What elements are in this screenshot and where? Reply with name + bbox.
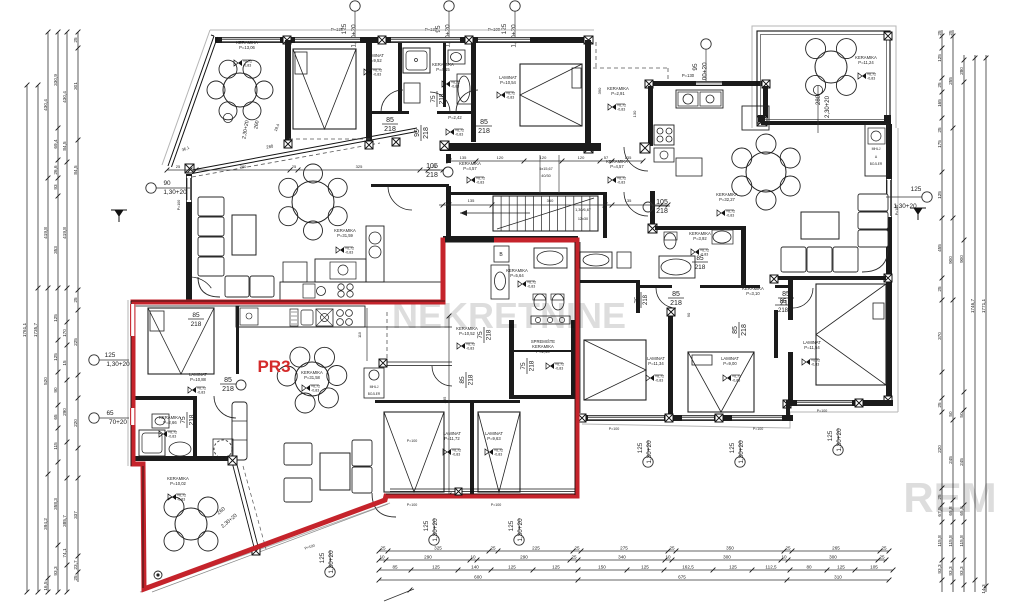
svg-text:1,30+20: 1,30+20 (106, 361, 130, 368)
svg-text:220: 220 (937, 445, 942, 453)
svg-text:75: 75 (520, 362, 527, 370)
wall pier (783, 400, 791, 408)
svg-text:218: 218 (191, 321, 202, 328)
svg-text:85: 85 (480, 119, 488, 126)
svg-text:-0,83: -0,83 (452, 452, 460, 456)
wall pier (855, 399, 863, 407)
svg-text:353: 353 (53, 246, 58, 254)
svg-text:419,8: 419,8 (62, 227, 67, 239)
svg-text:75: 75 (477, 331, 484, 339)
svg-text:115: 115 (53, 442, 58, 450)
svg-text:16,5: 16,5 (43, 581, 48, 591)
PR3 living furniture (284, 443, 312, 465)
bathroom east wall (471, 43, 476, 142)
door label 85 center (459, 372, 475, 388)
svg-text:P=10,02: P=10,02 (170, 481, 186, 486)
svg-text:P=100: P=100 (895, 205, 899, 216)
south wall of right apartment (786, 400, 893, 406)
svg-text:85: 85 (732, 326, 739, 334)
svg-text:170: 170 (62, 329, 67, 337)
svg-text:218: 218 (741, 324, 748, 336)
svg-text:130: 130 (632, 110, 637, 117)
svg-text:218: 218 (643, 294, 649, 305)
svg-text:-0,83: -0,83 (527, 284, 535, 288)
svg-text:125: 125 (827, 430, 834, 441)
svg-text:900: 900 (948, 256, 953, 264)
svg-text:165: 165 (937, 99, 942, 107)
svg-text:1761,1: 1761,1 (22, 322, 27, 337)
washbasin (448, 50, 465, 64)
kitchen west wall (648, 86, 653, 146)
svg-text:370: 370 (937, 332, 942, 340)
svg-text:P=100: P=100 (177, 200, 181, 211)
svg-text:25: 25 (937, 82, 942, 88)
svg-text:2,30+20: 2,30+20 (825, 95, 831, 118)
svg-text:1746,7: 1746,7 (970, 298, 975, 313)
svg-text:1,30+20: 1,30+20 (351, 24, 358, 48)
svg-text:P=100: P=100 (407, 439, 418, 443)
PR3 wardrobe (232, 402, 247, 460)
svg-text:90: 90 (686, 312, 691, 317)
center apartment north wall (443, 236, 578, 240)
wall pier (762, 80, 770, 88)
svg-text:125: 125 (105, 352, 116, 359)
svg-text:25: 25 (937, 30, 942, 36)
bedroom divider wall (788, 280, 793, 320)
svg-text:MHLJ: MHLJ (872, 147, 881, 151)
svg-text:65: 65 (106, 410, 114, 417)
svg-text:-0,83: -0,83 (466, 346, 474, 350)
svg-text:P=10,52: P=10,52 (459, 331, 475, 336)
svg-text:125: 125 (637, 442, 644, 453)
svg-text:105: 105 (426, 163, 438, 170)
svg-text:BOJLER: BOJLER (870, 162, 883, 166)
wall pier (757, 116, 767, 126)
storage and bath walls (509, 320, 514, 398)
svg-text:P=3,10: P=3,10 (746, 291, 760, 296)
kitchen counters (280, 282, 443, 300)
svg-text:218: 218 (656, 208, 668, 215)
svg-text:218: 218 (529, 360, 536, 371)
svg-text:112,5: 112,5 (765, 564, 777, 569)
wall pier (578, 414, 586, 422)
svg-text:12x30: 12x30 (578, 217, 588, 221)
wall pier (770, 275, 778, 283)
svg-text:10: 10 (781, 554, 787, 559)
svg-text:520: 520 (43, 377, 48, 385)
door label hall mid (635, 292, 649, 308)
svg-text:P=11,34: P=11,34 (648, 361, 664, 366)
svg-text:280: 280 (240, 164, 247, 169)
door PR3 bath (180, 412, 196, 428)
center bathroom fixtures (491, 265, 509, 299)
svg-text:65: 65 (53, 414, 58, 420)
svg-text:P=2,66: P=2,66 (163, 420, 177, 425)
svg-text:25: 25 (948, 30, 953, 36)
svg-text:PR3: PR3 (257, 357, 290, 376)
bathroom right fixtures (659, 256, 695, 278)
svg-text:15: 15 (62, 360, 67, 366)
wall pier (283, 36, 291, 44)
svg-text:125: 125 (641, 564, 649, 569)
svg-text:300: 300 (829, 554, 837, 559)
svg-text:90: 90 (53, 387, 58, 393)
svg-text:P=31,59: P=31,59 (337, 233, 353, 238)
wall pier (365, 141, 373, 149)
svg-text:135: 135 (460, 155, 467, 160)
svg-text:74,1: 74,1 (62, 548, 67, 558)
svg-text:150: 150 (598, 564, 606, 569)
benchmark symbol left (111, 210, 127, 222)
door arc bedroom2 (456, 90, 478, 112)
L-sofa (198, 197, 224, 216)
svg-text:105: 105 (656, 199, 668, 206)
svg-text:255: 255 (948, 77, 953, 85)
svg-text:265: 265 (832, 545, 840, 550)
svg-text:50: 50 (959, 412, 964, 418)
hall north wall (369, 111, 409, 114)
svg-text:218: 218 (423, 127, 430, 139)
svg-text:900: 900 (959, 255, 964, 263)
svg-text:325: 325 (356, 164, 363, 169)
svg-text:135: 135 (468, 198, 475, 203)
svg-text:P=4,15: P=4,15 (436, 67, 450, 72)
PR3 boiler closet wall (387, 361, 452, 363)
svg-text:105: 105 (870, 564, 878, 569)
svg-text:-0,83: -0,83 (373, 72, 381, 76)
wall pier (645, 80, 653, 88)
svg-text:330,9: 330,9 (53, 74, 58, 86)
svg-text:P=3,92: P=3,92 (693, 236, 707, 241)
svg-text:1,30+20: 1,30+20 (836, 428, 843, 452)
svg-text:-0,83: -0,83 (617, 180, 625, 184)
svg-text:435: 435 (442, 396, 447, 403)
wall pier (665, 414, 673, 422)
svg-text:P=100: P=100 (817, 409, 828, 413)
svg-text:P=31,58: P=31,58 (304, 375, 320, 380)
svg-text:P=4,57: P=4,57 (463, 166, 477, 171)
grey offset outline of building (128, 26, 898, 592)
svg-text:P=11,72: P=11,72 (444, 436, 460, 441)
svg-text:218: 218 (486, 329, 493, 340)
svg-text:75: 75 (180, 416, 187, 424)
svg-text:84,5: 84,5 (62, 141, 67, 151)
benchmark symbol right (910, 208, 926, 220)
stair hall guides (539, 155, 541, 193)
PR3 terrace table (175, 508, 207, 540)
svg-text:-0,83: -0,83 (168, 434, 176, 438)
svg-text:1,30+20: 1,30+20 (517, 518, 524, 542)
wall pier (465, 36, 473, 44)
svg-text:-0,83: -0,83 (494, 452, 502, 456)
interior dimension row (449, 160, 643, 162)
svg-text:P=100: P=100 (491, 503, 502, 507)
svg-text:125: 125 (423, 520, 430, 531)
door arc storage (520, 358, 536, 374)
svg-text:REM: REM (903, 474, 996, 521)
svg-text:455: 455 (937, 244, 942, 252)
coffee table (232, 215, 256, 255)
svg-text:25: 25 (574, 545, 580, 550)
svg-text:-0,83: -0,83 (726, 213, 734, 217)
PR3 bed (148, 308, 214, 374)
coffee table right (801, 212, 839, 239)
interior dimension row living (167, 169, 443, 171)
right dimension chains (937, 30, 989, 594)
svg-text:245: 245 (948, 456, 953, 464)
svg-text:-0,83: -0,83 (451, 84, 459, 88)
svg-text:25: 25 (292, 164, 297, 169)
svg-text:85: 85 (459, 376, 466, 384)
svg-text:95: 95 (692, 63, 699, 71)
door arc right2 (793, 288, 813, 308)
MHLJ closet (865, 124, 888, 176)
svg-text:85: 85 (386, 117, 394, 124)
terrace dining table NE (815, 51, 847, 83)
svg-text:1771,1: 1771,1 (981, 298, 986, 313)
svg-text:301: 301 (73, 82, 78, 90)
bed middle-1 (584, 340, 646, 400)
svg-text:-0,83: -0,83 (732, 378, 740, 382)
svg-text:125: 125 (552, 564, 560, 569)
top-right terrace walls (757, 31, 890, 123)
svg-text:70+20: 70+20 (109, 419, 127, 426)
svg-text:5x15,67: 5x15,67 (539, 167, 553, 171)
svg-text:115,8: 115,8 (959, 535, 964, 547)
wall pier (392, 138, 400, 146)
door arc right-apt (656, 288, 676, 308)
svg-text:1,30+20: 1,30+20 (511, 24, 518, 48)
svg-text:25: 25 (73, 37, 78, 43)
svg-text:350: 350 (726, 545, 734, 550)
svg-text:-0,83: -0,83 (555, 366, 563, 370)
door arc hall-kitchen (624, 147, 648, 171)
door knob circle (236, 380, 246, 390)
bottom window markers (304, 409, 843, 577)
wall pier at slant base (185, 164, 194, 173)
PR3 kitchen counter (236, 306, 365, 327)
wall pier (640, 143, 650, 153)
svg-text:P=2,40: P=2,40 (536, 349, 550, 354)
svg-text:-0,83: -0,83 (197, 390, 205, 394)
svg-text:-0,83: -0,83 (345, 250, 353, 254)
svg-text:1,30+20: 1,30+20 (646, 440, 653, 464)
svg-text:385,7: 385,7 (62, 515, 67, 527)
terrace drain (154, 571, 162, 579)
svg-text:90: 90 (163, 180, 171, 187)
corridor south wall (640, 285, 672, 288)
svg-text:-0,83: -0,83 (311, 388, 319, 392)
svg-text:110: 110 (358, 332, 362, 338)
svg-text:218: 218 (778, 308, 789, 314)
door arc bedroom1 (381, 90, 403, 112)
svg-text:85: 85 (224, 377, 232, 384)
svg-text:175: 175 (937, 140, 942, 148)
door label kitchen56 (477, 327, 493, 343)
wall pier (715, 414, 723, 422)
west wall of upper apartment (186, 174, 192, 303)
svg-text:69,4: 69,4 (53, 139, 58, 149)
svg-text:25: 25 (937, 127, 942, 133)
svg-text:25: 25 (73, 575, 78, 581)
svg-text:1,30+20: 1,30+20 (328, 550, 335, 574)
wall pier (884, 396, 892, 404)
dining table (292, 181, 334, 223)
interior dim vertical (448, 316, 450, 495)
svg-text:85: 85 (672, 291, 680, 298)
svg-text:25: 25 (490, 545, 496, 550)
svg-text:-0,83: -0,83 (455, 132, 463, 136)
svg-text:120: 120 (497, 155, 504, 160)
svg-text:93,3: 93,3 (53, 566, 58, 576)
door arc PR3 bedroom (214, 396, 236, 418)
svg-text:218: 218 (695, 264, 706, 271)
left window markers (89, 180, 190, 426)
stairwell east wall (650, 191, 655, 232)
svg-text:300: 300 (723, 554, 731, 559)
svg-text:93,3: 93,3 (948, 566, 953, 576)
door bath label (430, 91, 446, 107)
svg-text:125: 125 (508, 564, 516, 569)
svg-text:P=5,64: P=5,64 (510, 273, 524, 278)
kitchen top-right counters (676, 90, 723, 108)
svg-text:115,8: 115,8 (948, 535, 953, 547)
svg-text:-0,83: -0,83 (506, 95, 514, 99)
svg-text:125: 125 (937, 54, 942, 62)
door arc mid (732, 322, 748, 338)
svg-text:P=13,06: P=13,06 (239, 45, 255, 50)
svg-text:220: 220 (73, 419, 78, 427)
svg-text:95: 95 (414, 129, 421, 137)
svg-text:P=10,88: P=10,88 (190, 377, 206, 382)
svg-text:280: 280 (959, 67, 964, 75)
right apartment bath walls (655, 226, 746, 230)
east wall of bedroom 1 (366, 40, 372, 144)
wall pier (667, 308, 675, 316)
svg-text:P=32,27: P=32,27 (719, 197, 735, 202)
top window dimension markers (331, 1, 711, 86)
svg-text:75: 75 (635, 296, 641, 303)
svg-text:218: 218 (439, 93, 446, 104)
svg-text:-0,83: -0,83 (655, 378, 663, 382)
svg-text:218: 218 (222, 386, 234, 393)
slant dimension labels (181, 85, 831, 529)
parapet window lines above red (390, 488, 575, 490)
L-sofa right (858, 194, 888, 211)
svg-text:310: 310 (834, 574, 842, 579)
bottom dimension chains (377, 545, 896, 601)
svg-text:125: 125 (729, 442, 736, 453)
svg-text:275: 275 (620, 545, 628, 550)
svg-text:85: 85 (392, 564, 398, 569)
wall between bathrooms (443, 43, 446, 107)
wall pier (584, 36, 593, 44)
svg-text:125: 125 (837, 564, 845, 569)
svg-text:358,3: 358,3 (53, 498, 58, 510)
svg-text:140: 140 (471, 564, 479, 569)
svg-text:125: 125 (319, 552, 326, 563)
svg-text:-0,83: -0,83 (617, 107, 625, 111)
svg-text:25: 25 (669, 545, 675, 550)
toilet (404, 83, 420, 103)
svg-text:93,3: 93,3 (959, 566, 964, 576)
svg-text:40/30: 40/30 (541, 174, 551, 178)
stair hall walls (449, 192, 605, 195)
svg-text:290: 290 (424, 554, 432, 559)
svg-text:360: 360 (547, 198, 554, 203)
svg-text:430,4: 430,4 (43, 99, 48, 111)
svg-text:85: 85 (192, 312, 200, 319)
room labels (159, 40, 877, 501)
PR3 bedroom walls (375, 400, 520, 403)
svg-text:P=9,63: P=9,63 (487, 436, 501, 441)
door arc upper85a (190, 277, 211, 288)
svg-text:25: 25 (176, 164, 181, 169)
svg-text:125: 125 (508, 520, 515, 531)
svg-text:115,8: 115,8 (937, 535, 942, 547)
svg-text:25: 25 (881, 545, 887, 550)
svg-text:1735,7: 1735,7 (33, 322, 38, 337)
left dimension chains (22, 30, 81, 595)
svg-text:390: 390 (597, 87, 602, 94)
svg-text:P=9,00: P=9,00 (723, 361, 737, 366)
svg-text:245: 245 (959, 458, 964, 466)
bed middle-2 (688, 352, 754, 412)
dashed balcony overhang lines (289, 138, 371, 140)
staircase (493, 196, 598, 231)
wall lines under red boundary (131, 300, 445, 302)
svg-text:P=2,91: P=2,91 (611, 91, 625, 96)
svg-text:93,3: 93,3 (937, 564, 942, 574)
svg-text:125: 125 (53, 353, 58, 361)
beds bottom-left (384, 412, 444, 492)
door arc entry1 (388, 186, 412, 210)
svg-text:93: 93 (53, 184, 58, 190)
svg-text:419,8: 419,8 (43, 227, 48, 239)
wall pier (884, 274, 892, 282)
svg-text:340: 340 (618, 554, 626, 559)
svg-text:BOJLER: BOJLER (368, 392, 381, 396)
bed 1 (293, 49, 356, 129)
bedroom divider wall (774, 310, 778, 358)
svg-text:80: 80 (806, 564, 812, 569)
dining table right (746, 152, 786, 192)
svg-text:25: 25 (937, 402, 942, 408)
svg-text:P=11,54: P=11,54 (804, 345, 820, 350)
svg-text:290: 290 (62, 408, 67, 416)
svg-text:1,30+20: 1,30+20 (163, 189, 187, 196)
shower (403, 48, 430, 73)
svg-text:218: 218 (468, 374, 475, 385)
window gap in west red wall (130, 304, 136, 336)
svg-text:394,2: 394,2 (43, 518, 48, 530)
bedroom divider wall (668, 310, 673, 418)
svg-text:325: 325 (434, 545, 442, 550)
svg-text:125: 125 (432, 564, 440, 569)
red PR3 apartment boundary (133, 240, 577, 589)
svg-text:125: 125 (501, 23, 508, 34)
svg-text:337: 337 (73, 511, 78, 519)
svg-text:-0,83: -0,83 (476, 180, 484, 184)
middle apartment hall walls (580, 280, 640, 283)
svg-text:218: 218 (426, 172, 438, 179)
svg-text:218: 218 (189, 414, 196, 425)
svg-text:P=2,42: P=2,42 (448, 115, 462, 120)
upper hall walls (371, 184, 449, 187)
wall pier (284, 140, 292, 148)
svg-text:25: 25 (380, 545, 386, 550)
svg-text:-0,83: -0,83 (177, 497, 185, 501)
